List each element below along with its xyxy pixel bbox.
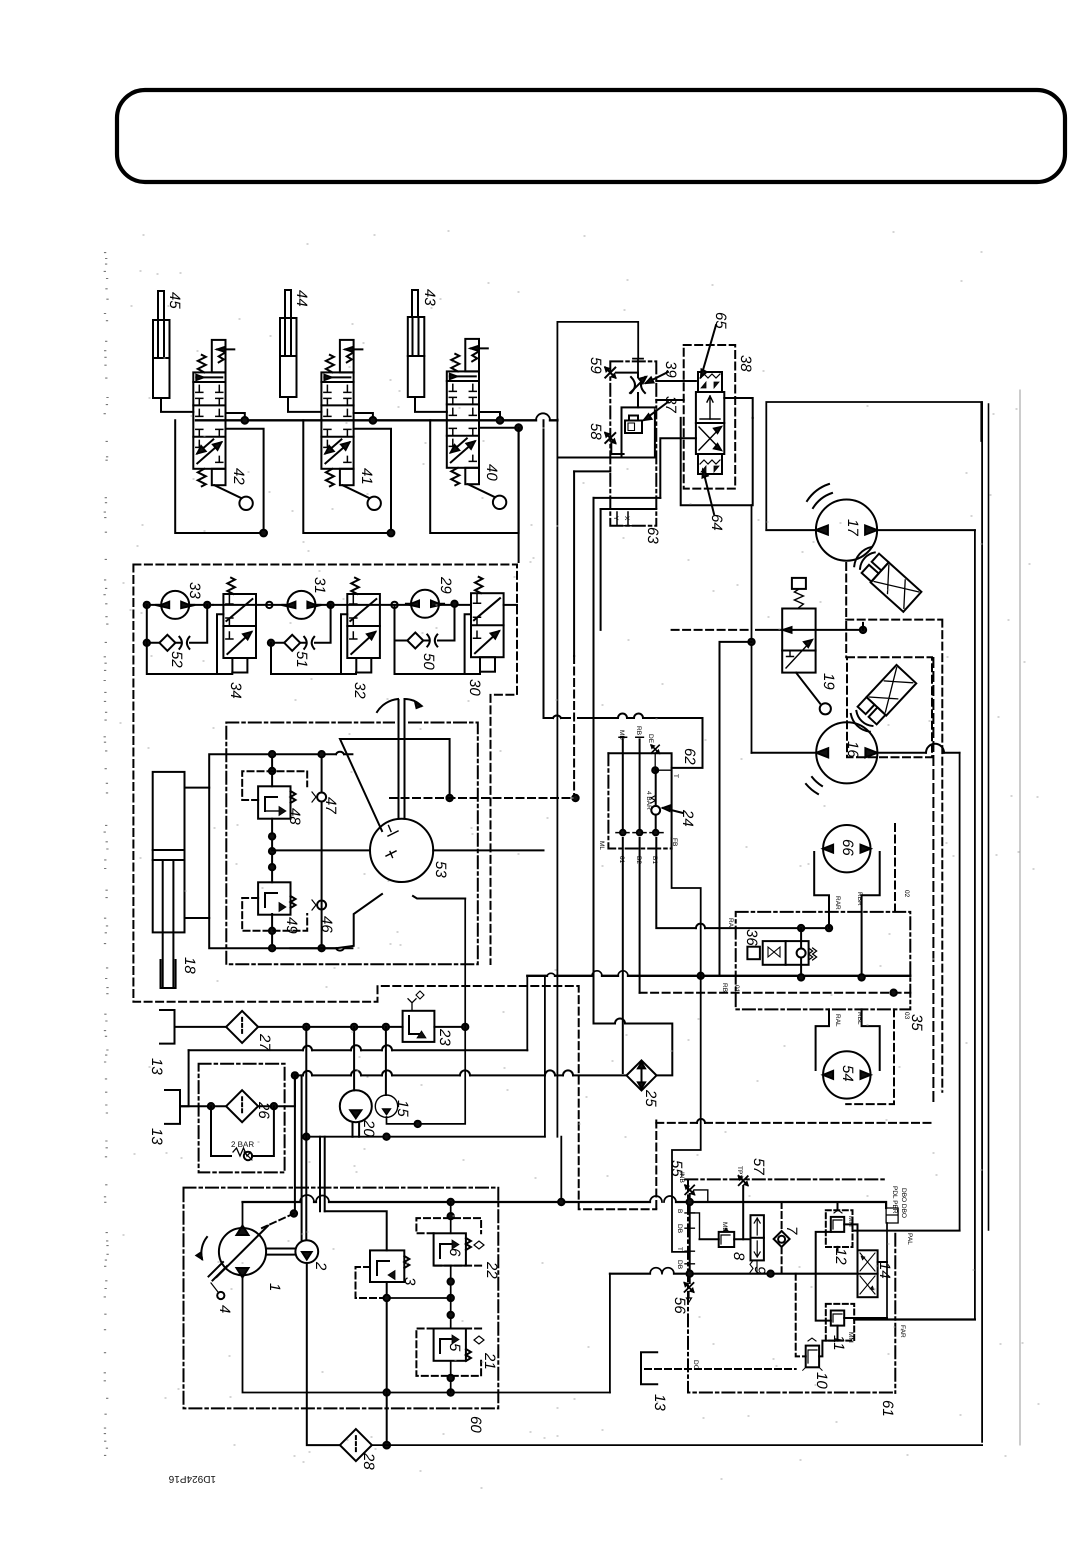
- junction dot x751: [748, 639, 754, 645]
- dashed x795: [796, 1274, 806, 1357]
- motor 17: [816, 499, 877, 560]
- throttle 58: [605, 433, 615, 443]
- pump 2: [295, 1240, 318, 1263]
- heavy wire y976: [527, 975, 910, 977]
- junction dots motor row: [144, 602, 334, 608]
- svg-text:43: 43: [421, 289, 438, 306]
- valve 32: [347, 578, 380, 673]
- valve 5: [434, 1329, 484, 1362]
- junction dots x450: [448, 1213, 454, 1381]
- svg-text:42: 42: [230, 468, 247, 485]
- svg-text:29: 29: [437, 576, 454, 594]
- svg-text:5: 5: [446, 1343, 463, 1352]
- inner box around 37: [622, 407, 655, 457]
- wire 63 step lines left: [559, 458, 661, 510]
- filter 28: [340, 1429, 372, 1461]
- svg-text:DE: DE: [647, 734, 654, 744]
- junction node bus-42: [226, 413, 249, 424]
- valve 6: [434, 1233, 484, 1265]
- wire valve23 right: [387, 899, 466, 1124]
- label 64 with arrow: [703, 470, 726, 531]
- check 50: [407, 633, 437, 649]
- wire 10-11: [819, 1326, 837, 1357]
- svg-text:31: 31: [311, 577, 328, 594]
- wire 57 down: [742, 1186, 744, 1239]
- svg-text:MB: MB: [618, 730, 625, 740]
- svg-text:55: 55: [668, 1160, 685, 1177]
- svg-text:62: 62: [681, 748, 698, 765]
- dashed box 6: [416, 1218, 481, 1266]
- filter 27: [226, 1011, 258, 1043]
- svg-text:RB: RB: [635, 726, 642, 735]
- scan noise: [104, 253, 108, 1456]
- svg-text:22: 22: [483, 1261, 500, 1279]
- legs to motor 54: [816, 1009, 880, 1070]
- valve 3: [370, 1250, 409, 1282]
- wire 59 to 39: [616, 373, 638, 408]
- dashed boundary left group: [133, 565, 656, 1210]
- filter 26: [226, 1090, 258, 1122]
- dashed box gearbox16: [847, 657, 932, 757]
- svg-text:6: 6: [446, 1248, 463, 1257]
- heavy wire y1273: [610, 1273, 858, 1275]
- wire right border x982: [981, 402, 983, 1442]
- svg-text:18: 18: [181, 957, 198, 974]
- wire check row 51: [271, 605, 347, 674]
- junction dot 40 box: [515, 424, 522, 431]
- wire motor16 line: [752, 752, 960, 754]
- cylinder 18: [153, 772, 185, 988]
- svg-text:10: 10: [813, 1372, 830, 1389]
- label 39 with arrow: [646, 361, 679, 383]
- wire right border x988: [988, 404, 990, 1230]
- svg-text:01: 01: [618, 856, 625, 864]
- dashed right of 66: [894, 824, 896, 912]
- wire line3 y1075: [295, 1074, 626, 1076]
- flow valve 39: [630, 377, 646, 393]
- svg-text:13: 13: [651, 1394, 668, 1411]
- wire line2 y1050: [189, 1049, 528, 1051]
- wire motor row y605: [147, 604, 471, 606]
- dashed from motor17 to right: [846, 563, 942, 1092]
- wire x188 to tank2: [180, 1050, 189, 1106]
- cylinder 45: [153, 291, 170, 398]
- cylinder 43: [408, 290, 425, 397]
- svg-text:15: 15: [394, 1100, 411, 1117]
- ports column stubs: [685, 1213, 694, 1264]
- pump 53 group dash-dot box: [226, 723, 477, 965]
- dashed tank line: [645, 1368, 796, 1370]
- wire pump1 top: [242, 1202, 244, 1228]
- label 37 with arrow: [644, 396, 679, 420]
- wire x751 down to motor16 line: [751, 505, 753, 753]
- dashed wire y798: [390, 797, 576, 799]
- dashed pilot 49: [242, 898, 307, 931]
- heavy dashed vertical x935: [932, 658, 934, 1104]
- wire 11 to 14: [844, 1262, 887, 1318]
- wire 53 bottom right: [413, 896, 465, 899]
- svg-text:16: 16: [844, 741, 861, 758]
- svg-text:13: 13: [148, 1058, 165, 1075]
- junction dot y992: [890, 990, 896, 996]
- motor 29: [405, 590, 445, 618]
- junction dots x321: [318, 751, 324, 951]
- wire 38 right down: [724, 398, 752, 418]
- svg-text:Y: Y: [612, 516, 619, 521]
- svg-text:DBO DBO: DBO DBO: [900, 1188, 907, 1218]
- dashed wire y1123: [656, 1122, 935, 1124]
- junction dots y1273: [687, 1271, 774, 1277]
- svg-text:PAL: PAL: [906, 1233, 913, 1245]
- pump 20: [340, 1090, 372, 1122]
- ports bottom 63: [613, 512, 632, 526]
- junction dot 863: [860, 627, 866, 633]
- svg-text:T: T: [672, 774, 679, 778]
- pump 1: [197, 1226, 269, 1300]
- wire line1 y1027: [175, 1026, 466, 1028]
- solid box relief group: [209, 754, 352, 948]
- wire motor17 line: [766, 529, 975, 531]
- box 60 dash-dot: [184, 1188, 499, 1409]
- svg-text:52: 52: [168, 651, 185, 668]
- svg-text:25: 25: [642, 1089, 659, 1107]
- svg-text:21: 21: [481, 1352, 498, 1370]
- junction dots y976: [698, 973, 865, 981]
- valve 38 body: [696, 372, 724, 474]
- svg-text:2: 2: [312, 1261, 329, 1271]
- junction node bus-41: [354, 413, 377, 424]
- svg-text:1: 1: [266, 1283, 283, 1291]
- svg-text:19: 19: [820, 673, 837, 690]
- svg-text:3: 3: [401, 1277, 418, 1286]
- wire 40 down to lower group: [518, 428, 520, 562]
- svg-text:39: 39: [662, 361, 679, 378]
- svg-text:X: X: [623, 516, 630, 521]
- brake arc motor 16: [806, 777, 822, 794]
- throttle 57: [736, 1166, 748, 1185]
- svg-text:48: 48: [286, 808, 303, 825]
- svg-text:34: 34: [227, 682, 244, 699]
- valve 41: [321, 340, 381, 510]
- wire pump1-pump2: [266, 1249, 295, 1255]
- port block PDL PBR: [886, 1186, 907, 1223]
- wire x700 down: [672, 838, 701, 1252]
- wire cylinder43 to valve40: [415, 397, 447, 412]
- wire x975 down to FAR: [974, 530, 976, 1319]
- orifice 46: [312, 900, 326, 910]
- svg-text:51: 51: [293, 651, 310, 668]
- check 52: [159, 635, 189, 651]
- svg-text:66: 66: [839, 839, 856, 856]
- wire pump20 risers pair2: [320, 1137, 325, 1212]
- svg-text:36: 36: [743, 929, 760, 946]
- junction dot check51: [268, 640, 274, 646]
- wire bus to valve63 P: [557, 322, 638, 419]
- wire 55 column: [689, 1194, 691, 1283]
- wire x272 vertical: [271, 754, 273, 948]
- svg-text:RAL: RAL: [834, 1014, 841, 1027]
- box 61 dash-dot: [685, 1179, 895, 1393]
- wire 53 right port: [433, 849, 543, 851]
- svg-text:59: 59: [587, 357, 604, 374]
- label 24 with arrow: [663, 806, 696, 827]
- svg-text:14: 14: [876, 1262, 893, 1279]
- wire filter26 row: [180, 1075, 295, 1106]
- wire vertical x593: [593, 498, 595, 1024]
- wire x609 up: [609, 1274, 611, 1393]
- valve 40: [447, 339, 507, 509]
- wire x544 corner down: [544, 976, 546, 1137]
- junction node bus-40: [479, 412, 503, 424]
- wire x656 down to RA: [656, 838, 735, 928]
- valve 11: [831, 1311, 854, 1343]
- valve 12: [831, 1210, 854, 1232]
- junction dot y798 right: [572, 795, 578, 801]
- throttle 59: [605, 368, 615, 378]
- pump 53: [370, 699, 433, 882]
- svg-text:FAR: FAR: [899, 1325, 906, 1338]
- svg-text:50: 50: [420, 653, 437, 670]
- junction dots y1202: [448, 1199, 565, 1205]
- svg-text:RBL: RBL: [856, 1012, 863, 1025]
- port P top 63: [633, 359, 643, 373]
- svg-text:02: 02: [903, 890, 910, 898]
- dashed box 54: [846, 1009, 894, 1104]
- wire return box 42: [175, 420, 263, 533]
- valve 14: [858, 1250, 878, 1297]
- dashed box 12: [826, 1210, 853, 1247]
- wire valve3 top: [325, 1211, 387, 1250]
- heavy wire y1202: [243, 1202, 887, 1208]
- junction dot filter28: [383, 1442, 390, 1449]
- valve 19: [782, 578, 815, 673]
- wire return box 40: [430, 420, 518, 533]
- wire 53 bottom left: [291, 894, 383, 948]
- junction dot 41 box: [388, 530, 395, 537]
- svg-text:RBR: RBR: [856, 892, 863, 906]
- svg-text:57: 57: [750, 1158, 767, 1175]
- junction dots line1: [303, 1024, 468, 1030]
- svg-text:46: 46: [318, 916, 335, 933]
- valve 38 outer dashed box: [684, 345, 736, 489]
- svg-text:27: 27: [256, 1033, 273, 1051]
- wire 12-11 left riser: [816, 1232, 831, 1321]
- svg-text:13: 13: [148, 1128, 165, 1145]
- wire vertical x557 long: [556, 419, 558, 1137]
- wires 63 to 38: [656, 381, 696, 498]
- wire FAR: [854, 1318, 975, 1320]
- wire x527 corner: [526, 976, 528, 1051]
- valve 37: [625, 416, 642, 434]
- junction dots ports 62: [620, 830, 659, 836]
- svg-text:40: 40: [483, 464, 500, 481]
- svg-text:T: T: [676, 1247, 683, 1251]
- svg-text:26: 26: [255, 1101, 272, 1119]
- wire y718: [544, 718, 703, 768]
- svg-text:33: 33: [186, 582, 203, 599]
- svg-text:41: 41: [358, 468, 375, 485]
- wire y1136: [306, 1136, 545, 1138]
- svg-text:ML: ML: [598, 841, 605, 850]
- motor 66: [823, 825, 870, 872]
- junction dot x294: [291, 1210, 297, 1216]
- motor 54: [823, 1051, 870, 1098]
- bottom wire y1445: [372, 1444, 982, 1446]
- dashed pilot 48: [242, 771, 307, 800]
- svg-text:2 BAR: 2 BAR: [231, 1140, 254, 1149]
- dashed wire y992 RB 01: [640, 992, 911, 994]
- wire cyl18 bottom port: [185, 917, 210, 919]
- svg-text:56: 56: [671, 1297, 688, 1314]
- svg-text:58: 58: [587, 423, 604, 440]
- wire 66 legs: [814, 852, 880, 912]
- motor 33: [155, 591, 195, 619]
- svg-text:4 BAR: 4 BAR: [645, 791, 652, 810]
- svg-text:47: 47: [322, 797, 339, 814]
- svg-text:28: 28: [360, 1452, 377, 1470]
- wire cylinder45 to valve42: [161, 398, 193, 412]
- svg-text:38: 38: [737, 355, 754, 372]
- wire pumps feed: [354, 1027, 386, 1095]
- svg-text:17: 17: [844, 519, 861, 536]
- wire pump2 bottom drain: [307, 1263, 340, 1445]
- dashdot box 26: [199, 1064, 285, 1173]
- wire vertical x600: [600, 509, 602, 630]
- junction dot x417: [415, 1121, 421, 1127]
- svg-text:45: 45: [166, 292, 183, 309]
- wire cylinder44 to valve41: [288, 397, 321, 412]
- brake arc motor 17: [807, 484, 832, 508]
- valve 34: [223, 578, 256, 673]
- dashed box 11: [826, 1304, 854, 1341]
- junction dots y1136: [303, 1134, 390, 1140]
- svg-text:7: 7: [783, 1226, 800, 1235]
- check 51: [284, 635, 314, 651]
- box 62: [608, 753, 671, 848]
- relief valve 48: [258, 786, 295, 818]
- valve 10: [803, 1338, 822, 1370]
- valve 30: [471, 577, 504, 672]
- title box: [117, 90, 1065, 182]
- svg-text:53: 53: [432, 861, 449, 878]
- svg-text:54: 54: [839, 1065, 856, 1082]
- svg-text:DC: DC: [692, 1360, 699, 1370]
- svg-text:8: 8: [730, 1252, 747, 1261]
- wire RA line inside 35: [736, 927, 829, 929]
- ports row box62: [616, 737, 663, 832]
- svg-text:12: 12: [832, 1248, 849, 1265]
- wire x959 down to PAL: [959, 753, 961, 1231]
- junction dot 42 box: [260, 530, 267, 537]
- dashed stub to pump1: [262, 1214, 294, 1229]
- svg-text:MB: MB: [721, 1222, 728, 1232]
- throttle 55: [678, 1172, 708, 1202]
- svg-text:60: 60: [467, 1416, 484, 1433]
- svg-text:DB: DB: [676, 1224, 683, 1233]
- wire x294 down: [294, 1075, 296, 1213]
- svg-text:B: B: [676, 1209, 683, 1213]
- 2 BAR bypass: [211, 1106, 274, 1160]
- dashed box 5: [416, 1329, 481, 1376]
- wire x622 down: [622, 838, 624, 1073]
- big box motors: [766, 402, 981, 529]
- dashed vertical x656: [655, 1121, 657, 1210]
- valve 8: [719, 1222, 735, 1247]
- svg-text:1D924P16: 1D924P16: [168, 1473, 216, 1484]
- wire group31 box: [271, 643, 356, 674]
- svg-text:B2: B2: [635, 856, 642, 864]
- svg-text:23: 23: [436, 1028, 453, 1046]
- throttle DE: [647, 734, 672, 773]
- dashed pilot 3: [356, 1267, 387, 1298]
- gearbox 16: [848, 665, 916, 736]
- swash wire 53: [340, 739, 450, 831]
- wire cyl18 top port: [185, 787, 210, 789]
- svg-text:9: 9: [751, 1266, 768, 1275]
- wire filter25 right: [594, 1024, 673, 1076]
- wire left stub at 641: [720, 642, 752, 976]
- junction dot check52: [144, 640, 150, 646]
- gearbox 17: [850, 544, 921, 612]
- wire pump1 bottom: [243, 1275, 610, 1392]
- svg-text:30: 30: [466, 679, 483, 696]
- wire 53 left port: [272, 849, 370, 851]
- wire pump2 risers: [302, 1027, 307, 1240]
- valve62 stubs MB RB: [623, 739, 640, 834]
- junction dot y1202 near55: [687, 1199, 693, 1205]
- wire y1298: [387, 1297, 451, 1299]
- tank 13 upper: [160, 1010, 175, 1044]
- svg-text:64: 64: [708, 514, 725, 531]
- wire x887: [886, 1223, 888, 1320]
- junction dots y1298: [384, 1295, 454, 1301]
- valve 23: [403, 991, 435, 1042]
- svg-text:44: 44: [293, 290, 310, 307]
- svg-text:RAR: RAR: [834, 896, 841, 910]
- pump 15: [375, 1095, 397, 1117]
- wire return box 41: [303, 420, 391, 533]
- valve 42: [193, 340, 253, 510]
- svg-text:01: 01: [733, 985, 740, 993]
- open ring nodes motor row: [266, 602, 398, 608]
- valve 9: [750, 1215, 764, 1272]
- svg-text:4: 4: [216, 1305, 233, 1313]
- orifice 47: [312, 754, 326, 948]
- wire x450 chain: [450, 1202, 452, 1393]
- cylinder 44: [280, 290, 297, 397]
- box 35 dash-dot: [736, 912, 911, 1010]
- relief valve 49: [258, 882, 295, 914]
- lever circle 19: [796, 673, 831, 715]
- wire 8 to 9: [700, 1238, 751, 1240]
- svg-text:63: 63: [644, 527, 661, 544]
- check 7: [774, 1231, 790, 1247]
- wire x561 to y1202: [560, 1137, 562, 1202]
- svg-text:03: 03: [903, 1012, 910, 1020]
- wire group29 box: [395, 605, 481, 674]
- solid box 64: [681, 418, 753, 505]
- wire valve30 right to dashed edge: [504, 604, 517, 606]
- wire check row 52: [147, 605, 224, 674]
- wire pump20 down pair: [353, 1122, 360, 1137]
- wire PAL: [853, 1230, 960, 1232]
- wire x801 through 36: [800, 928, 802, 977]
- wire 12 lines: [838, 1202, 858, 1250]
- wire check row 50: [395, 604, 472, 673]
- svg-text:DB: DB: [676, 1260, 683, 1269]
- wire group33 box: [147, 605, 233, 674]
- junction dots x272: [269, 751, 275, 951]
